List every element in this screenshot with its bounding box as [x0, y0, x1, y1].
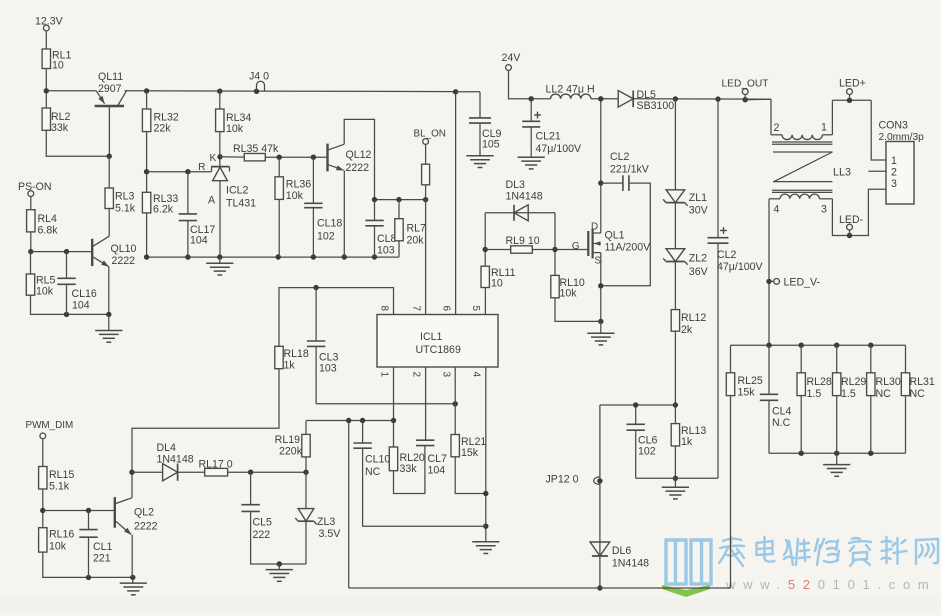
- svg-text:5.1k: 5.1k: [115, 203, 136, 215]
- svg-text:102: 102: [317, 231, 335, 243]
- svg-text:CL10: CL10: [365, 454, 390, 466]
- svg-text:CL18: CL18: [317, 218, 342, 230]
- svg-text:LED_V-: LED_V-: [784, 277, 821, 289]
- svg-text:12.3V: 12.3V: [35, 16, 64, 28]
- svg-text:LED-: LED-: [839, 214, 864, 226]
- svg-text:220k: 220k: [279, 446, 303, 458]
- svg-text:7: 7: [410, 306, 421, 312]
- svg-text:22k: 22k: [154, 123, 172, 135]
- svg-text:2907: 2907: [98, 83, 122, 95]
- svg-text:1N4148: 1N4148: [612, 558, 649, 570]
- svg-text:LL2 47μ H: LL2 47μ H: [546, 84, 595, 96]
- svg-text:5.1k: 5.1k: [49, 481, 70, 493]
- svg-text:3: 3: [891, 178, 897, 190]
- svg-text:RL28: RL28: [807, 376, 832, 388]
- svg-text:36V: 36V: [689, 266, 709, 278]
- svg-text:LED_OUT: LED_OUT: [722, 79, 769, 90]
- svg-text:CL4: CL4: [772, 406, 792, 418]
- svg-text:ICL2: ICL2: [226, 185, 248, 197]
- svg-text:ZL3: ZL3: [317, 516, 335, 528]
- svg-text:CL21: CL21: [536, 131, 561, 143]
- svg-text:LED+: LED+: [839, 78, 866, 90]
- svg-text:33k: 33k: [400, 463, 418, 475]
- svg-text:3: 3: [440, 372, 451, 378]
- svg-text:2k: 2k: [681, 324, 693, 336]
- svg-text:CL2: CL2: [717, 249, 737, 261]
- svg-text:UTC1869: UTC1869: [416, 344, 461, 356]
- svg-text:J4 0: J4 0: [249, 71, 269, 83]
- svg-text:10k: 10k: [560, 288, 578, 300]
- svg-text:CL1: CL1: [93, 541, 113, 553]
- svg-text:24V: 24V: [502, 52, 522, 64]
- svg-text:15k: 15k: [738, 387, 756, 399]
- svg-text:R: R: [198, 162, 205, 173]
- svg-text:30V: 30V: [689, 205, 709, 217]
- svg-text:1.5: 1.5: [807, 388, 822, 400]
- svg-text:104: 104: [190, 235, 208, 247]
- svg-text:2: 2: [891, 167, 897, 179]
- svg-text:S: S: [595, 256, 602, 267]
- svg-text:RL4: RL4: [38, 213, 58, 225]
- svg-text:PWM_DIM: PWM_DIM: [26, 420, 74, 431]
- svg-text:10: 10: [52, 60, 64, 72]
- svg-text:15k: 15k: [461, 447, 479, 459]
- svg-text:LL3: LL3: [833, 167, 851, 179]
- svg-text:2222: 2222: [134, 521, 158, 533]
- svg-text:1k: 1k: [284, 360, 296, 372]
- svg-text:www.520101.com: www.520101.com: [725, 577, 936, 592]
- svg-text:2222: 2222: [346, 162, 370, 174]
- svg-text:3: 3: [821, 204, 827, 216]
- svg-text:QL12: QL12: [346, 149, 372, 161]
- svg-text:N.C: N.C: [772, 417, 791, 429]
- svg-text:3.5V: 3.5V: [319, 528, 342, 540]
- svg-text:RL36: RL36: [286, 179, 311, 191]
- svg-text:10k: 10k: [49, 541, 67, 553]
- svg-text:RL31: RL31: [910, 376, 935, 388]
- svg-text:10: 10: [491, 278, 503, 290]
- svg-text:NC: NC: [365, 466, 381, 478]
- svg-text:222: 222: [253, 529, 271, 541]
- svg-text:1.5: 1.5: [841, 388, 856, 400]
- svg-text:RL3: RL3: [115, 191, 135, 203]
- svg-text:20k: 20k: [407, 235, 425, 247]
- svg-text:RL29: RL29: [841, 376, 866, 388]
- svg-text:1k: 1k: [681, 436, 693, 448]
- svg-text:QL11: QL11: [98, 71, 123, 83]
- svg-text:2222: 2222: [112, 255, 136, 267]
- svg-text:2: 2: [410, 372, 421, 378]
- svg-text:NC: NC: [876, 388, 892, 400]
- svg-text:K: K: [210, 153, 217, 164]
- svg-text:104: 104: [428, 465, 446, 477]
- svg-text:CL8: CL8: [377, 233, 397, 245]
- svg-text:DL6: DL6: [612, 545, 632, 557]
- svg-text:CL2: CL2: [610, 151, 630, 163]
- svg-text:6.8k: 6.8k: [38, 225, 59, 237]
- svg-text:4: 4: [774, 204, 780, 216]
- svg-text:RL16: RL16: [49, 529, 74, 541]
- svg-text:RL30: RL30: [876, 376, 901, 388]
- svg-text:4: 4: [471, 372, 482, 378]
- svg-text:6.2k: 6.2k: [153, 204, 174, 216]
- svg-text:TL431: TL431: [226, 198, 256, 210]
- svg-text:47μ/100V: 47μ/100V: [717, 261, 764, 273]
- svg-text:DL3: DL3: [506, 179, 526, 191]
- svg-text:ICL1: ICL1: [420, 331, 442, 343]
- svg-text:1N4148: 1N4148: [506, 191, 543, 203]
- svg-text:10k: 10k: [286, 190, 304, 202]
- svg-text:A: A: [208, 195, 216, 207]
- svg-text:102: 102: [638, 446, 656, 458]
- svg-text:QL1: QL1: [605, 230, 625, 242]
- svg-text:CON3: CON3: [879, 120, 909, 132]
- svg-text:5: 5: [470, 306, 481, 312]
- svg-text:G: G: [572, 241, 580, 252]
- svg-text:47μ/100V: 47μ/100V: [536, 143, 583, 155]
- svg-text:RL17 0: RL17 0: [199, 459, 233, 471]
- svg-text:103: 103: [319, 363, 337, 375]
- svg-text:DL4: DL4: [157, 442, 177, 454]
- svg-text:PS-ON: PS-ON: [18, 181, 52, 193]
- svg-text:10k: 10k: [36, 286, 54, 298]
- svg-text:221: 221: [93, 553, 111, 565]
- svg-text:JP12 0: JP12 0: [546, 474, 579, 486]
- svg-text:1: 1: [891, 155, 897, 167]
- svg-text:ZL2: ZL2: [689, 253, 707, 265]
- svg-text:8: 8: [378, 306, 389, 312]
- svg-text:RL18: RL18: [284, 348, 309, 360]
- svg-text:104: 104: [72, 300, 90, 312]
- svg-text:QL2: QL2: [134, 507, 154, 519]
- svg-text:CL7: CL7: [428, 453, 448, 465]
- svg-text:CL16: CL16: [72, 288, 97, 300]
- svg-text:CL5: CL5: [253, 517, 273, 529]
- svg-text:10k: 10k: [226, 123, 244, 135]
- svg-text:RL19: RL19: [275, 434, 300, 446]
- svg-text:RL35 47k: RL35 47k: [233, 143, 279, 155]
- svg-text:D: D: [591, 222, 598, 233]
- svg-text:6: 6: [440, 306, 451, 312]
- svg-text:2: 2: [774, 122, 780, 134]
- svg-text:33k: 33k: [51, 122, 69, 134]
- svg-text:105: 105: [482, 139, 500, 151]
- svg-text:1: 1: [821, 122, 827, 134]
- svg-text:11A/200V: 11A/200V: [605, 242, 652, 254]
- svg-text:NC: NC: [910, 388, 926, 400]
- svg-text:BL_ON: BL_ON: [414, 129, 446, 140]
- svg-text:1N4148: 1N4148: [157, 454, 194, 466]
- svg-text:RL9 10: RL9 10: [506, 235, 540, 247]
- svg-text:1: 1: [378, 372, 389, 378]
- svg-text:QL10: QL10: [111, 243, 137, 255]
- svg-text:ZL1: ZL1: [689, 192, 707, 204]
- svg-text:103: 103: [377, 245, 395, 257]
- svg-text:2.0mm/3p: 2.0mm/3p: [879, 132, 925, 143]
- svg-text:RL12: RL12: [681, 312, 706, 324]
- svg-text:RL25: RL25: [738, 375, 763, 387]
- svg-text:221/1kV: 221/1kV: [610, 164, 650, 176]
- svg-text:SB3100: SB3100: [637, 100, 675, 112]
- svg-text:RL7: RL7: [407, 223, 427, 235]
- svg-text:RL15: RL15: [49, 469, 74, 481]
